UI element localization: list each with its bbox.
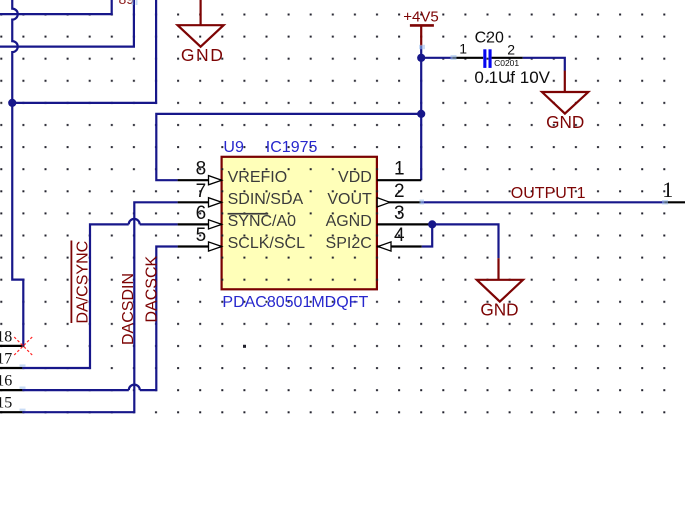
- wire capacitor to GND: [523, 58, 565, 71]
- svg-text:VDD: VDD: [338, 169, 372, 186]
- svg-text:PDAC80501MDQFT: PDAC80501MDQFT: [222, 294, 368, 311]
- ground GND right of capacitor: [542, 71, 588, 132]
- svg-text:+4V5: +4V5: [403, 8, 438, 25]
- left connector pin 15 stub: [0, 411, 22, 413]
- capacitor C20: [452, 29, 550, 87]
- svg-text:GND: GND: [546, 112, 584, 132]
- stray light blue marks top: [132, 0, 134, 5]
- no-ERC marker X: [14, 337, 32, 355]
- ground GND top middle: [178, 0, 225, 65]
- wire hop over DACSDIN lower: [129, 385, 140, 390]
- svg-text:1: 1: [662, 177, 673, 202]
- svg-text:OUTPUT1: OUTPUT1: [511, 185, 586, 202]
- wire pin16 to SCLK/SCL with hop: [22, 247, 177, 391]
- wire left vertical with hops down to pin 18: [12, 0, 23, 346]
- pin 8 VREFIO: [178, 159, 288, 186]
- svg-text:5: 5: [196, 225, 207, 246]
- junction: [428, 220, 436, 228]
- svg-text:1: 1: [394, 159, 405, 180]
- svg-text:VREFIO: VREFIO: [228, 169, 288, 186]
- wire pin15 to SDIN/SDA: [22, 202, 177, 412]
- svg-text:GND: GND: [181, 45, 225, 65]
- wire +4V5 vertical to VDD: [420, 46, 422, 180]
- svg-text:U9: U9: [223, 139, 244, 156]
- wire from junction to top edge: [12, 0, 156, 103]
- svg-text:SPI2C: SPI2C: [326, 235, 372, 252]
- wire hop over DACSDIN: [129, 219, 140, 225]
- pin 4 SPI2C: [326, 225, 422, 252]
- svg-text:GND: GND: [480, 299, 518, 319]
- svg-text:C20: C20: [475, 29, 504, 46]
- pin 3 AGND: [326, 203, 433, 230]
- svg-text:VOUT: VOUT: [327, 191, 372, 208]
- svg-text:18: 18: [0, 328, 12, 345]
- svg-text:DACSCK: DACSCK: [144, 255, 161, 322]
- svg-text:17: 17: [0, 351, 12, 368]
- pin 7 SDIN/SDA: [178, 181, 304, 208]
- svg-text:2: 2: [507, 41, 515, 57]
- svg-text:1: 1: [459, 40, 467, 56]
- wire top-left horizontal 2: [0, 0, 134, 47]
- wire to capacitor C20: [421, 57, 452, 59]
- pin 2 VOUT: [327, 181, 421, 208]
- svg-text:DACSDIN: DACSDIN: [120, 273, 137, 345]
- pin 6 SYNC/A0: [178, 203, 297, 230]
- wire AGND to GND: [432, 224, 498, 258]
- svg-text:8: 8: [196, 159, 207, 180]
- svg-text:2: 2: [394, 181, 405, 202]
- power symbol +4V5: [403, 8, 438, 46]
- left connector pin 18 stub: [0, 345, 22, 347]
- svg-text:SYNC/A0: SYNC/A0: [228, 213, 297, 230]
- junction: [8, 99, 16, 107]
- pin 5 SCLK/SCL: [178, 225, 305, 252]
- svg-text:DA/CSYNC: DA/CSYNC: [75, 241, 92, 324]
- pin 1 VDD: [338, 159, 421, 186]
- svg-text:7: 7: [196, 181, 207, 202]
- svg-text:IC1975: IC1975: [266, 139, 318, 156]
- svg-text:AGND: AGND: [326, 213, 372, 230]
- wire AGND to SPI2C: [422, 224, 432, 246]
- grid dots: [243, 345, 246, 348]
- off-sheet pin stub right: [664, 201, 685, 203]
- junction: [417, 54, 425, 62]
- wire VREFIO net to +4V5 column: [156, 114, 421, 180]
- IC U9 PDAC80501MDQFT body: [222, 157, 377, 289]
- svg-text:0.1Uf 10V: 0.1Uf 10V: [474, 68, 550, 87]
- svg-text:15: 15: [0, 395, 12, 412]
- wire pin17 to SYNC/A0 with hop: [22, 224, 177, 368]
- light blue connection marks: [419, 45, 425, 49]
- ground GND bottom right: [477, 258, 523, 319]
- net label DA/CSYNC vertical: [71, 241, 92, 324]
- left connector pin 16 stub: [0, 389, 22, 391]
- svg-text:C0201: C0201: [494, 58, 519, 68]
- left connector pin 17 stub: [0, 367, 22, 369]
- wire VOUT to OUTPUT1: [421, 201, 664, 203]
- svg-text:4: 4: [394, 225, 405, 246]
- svg-text:SDIN/SDA: SDIN/SDA: [228, 191, 304, 208]
- wire top-left horizontal 1: [0, 0, 112, 14]
- svg-text:6: 6: [196, 203, 207, 224]
- svg-text:SCLK/SCL: SCLK/SCL: [228, 235, 305, 252]
- junction: [417, 110, 425, 118]
- svg-text:3: 3: [394, 203, 405, 224]
- svg-text:16: 16: [0, 373, 12, 390]
